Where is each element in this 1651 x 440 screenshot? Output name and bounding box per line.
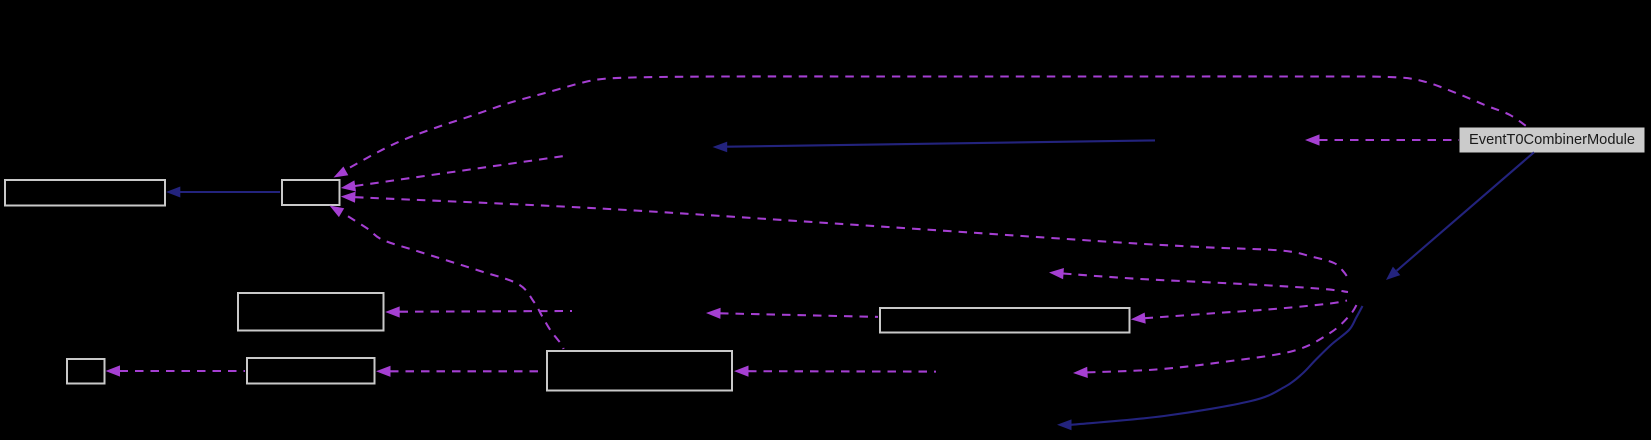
edge purple P6: BoxC -> BoxB: [376, 366, 545, 377]
edge purple Cc: swinging curve to floating arrow above blue curve: [1073, 302, 1358, 378]
edge blue E1: Box2 -> Box1: [166, 187, 280, 198]
node BoxA (two-line): [238, 293, 384, 331]
edge purple P4: S-curve from BoxC top to Box2 bottom-right: [330, 206, 564, 350]
edge purple P2: short floating segment into Box2 right edge: [341, 156, 564, 192]
node EventT0CombinerModule (gray filled): [1460, 128, 1644, 152]
svg-text:EventT0CombinerModule: EventT0CombinerModule: [1469, 132, 1635, 148]
edge blue E4: long curve to bottom-left: [1057, 306, 1363, 430]
node BoxB: [247, 358, 375, 384]
edge purple P7: into BoxC right edge, floating tail: [734, 366, 936, 377]
edge purple P8: from EventT0CombinerModule left, short horizontal: [1305, 134, 1459, 145]
node BoxC (two-line): [547, 351, 732, 391]
edge purple P1: big top arc into Box2 top-right corner: [334, 76, 1529, 177]
node Box1 (top-left, empty label): [5, 180, 165, 206]
edge purple P9: from right cluster into BoxD right edge: [1131, 301, 1347, 324]
edge purple P3: long shallow curve from right cluster into Box2: [341, 192, 1348, 278]
edge blue E2: long horizontal arrow: [713, 140, 1156, 152]
node Box2 (small, hub): [282, 180, 340, 205]
edge purple P5: BoxB -> BoxE: [106, 365, 246, 376]
node BoxE (small bottom-left): [67, 359, 105, 384]
node BoxD (wide): [880, 308, 1130, 333]
edge purple PA: into BoxA right edge, floating tail: [385, 306, 572, 317]
edge blue E3: EventT0CombinerModule diagonal down-left: [1386, 152, 1534, 280]
edge purple PD: BoxD -> floating arrow left: [706, 308, 878, 319]
edge purple Ca: floating arrow mid-right: [1049, 268, 1348, 292]
